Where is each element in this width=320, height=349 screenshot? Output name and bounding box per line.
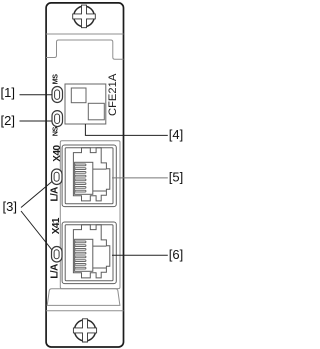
[3] leader upper xyxy=(21,182,52,208)
svg-text:[2]: [2] xyxy=(1,113,15,128)
svg-text:[4]: [4] xyxy=(169,127,183,142)
X40 pins xyxy=(75,164,86,192)
bracket top edge (bottom) xyxy=(46,310,123,312)
svg-text:X41: X41 xyxy=(51,217,62,234)
X40 plug body xyxy=(75,162,93,194)
[1] leader xyxy=(20,94,53,96)
MS LED xyxy=(52,87,63,103)
[3] leader lower xyxy=(21,211,52,250)
[5] leader xyxy=(112,177,168,179)
X41 plug body xyxy=(75,239,93,271)
X41 latch stubs xyxy=(93,246,107,268)
svg-text:MS: MS xyxy=(50,74,59,85)
L/A LED X41 xyxy=(52,247,63,263)
[6] leader xyxy=(112,254,168,256)
svg-text:[1]: [1] xyxy=(1,85,15,100)
X41 pins xyxy=(75,241,86,269)
X41 jack outline xyxy=(73,225,109,278)
X40 bezel xyxy=(62,145,116,207)
X40 jack outline xyxy=(73,148,109,201)
svg-text:[3]: [3] xyxy=(3,199,17,214)
svg-text:NS: NS xyxy=(50,126,59,136)
NS LED xyxy=(52,111,63,127)
L/A LED X40 xyxy=(52,169,63,185)
small square 2 xyxy=(88,103,104,120)
X41 bezel xyxy=(62,222,116,284)
screw bottom xyxy=(73,319,96,342)
screw top xyxy=(73,5,96,28)
svg-text:CFE21A: CFE21A xyxy=(107,73,119,116)
connector recess xyxy=(60,141,120,289)
[4] leader xyxy=(85,124,167,135)
svg-text:[6]: [6] xyxy=(169,247,183,262)
bracket bottom edge (top) xyxy=(46,33,123,35)
faceplate top tab xyxy=(46,40,123,59)
[2] leader xyxy=(20,120,53,122)
C-PLUG slot box xyxy=(65,84,106,124)
module outline xyxy=(46,3,123,347)
svg-text:[5]: [5] xyxy=(169,169,183,184)
X40 latch stubs xyxy=(93,169,107,191)
small square 1 xyxy=(71,88,86,103)
svg-text:L/A: L/A xyxy=(49,187,60,202)
bottom handle trapezoid xyxy=(47,289,120,306)
svg-text:L/A: L/A xyxy=(49,264,60,279)
svg-text:X40: X40 xyxy=(52,144,63,161)
